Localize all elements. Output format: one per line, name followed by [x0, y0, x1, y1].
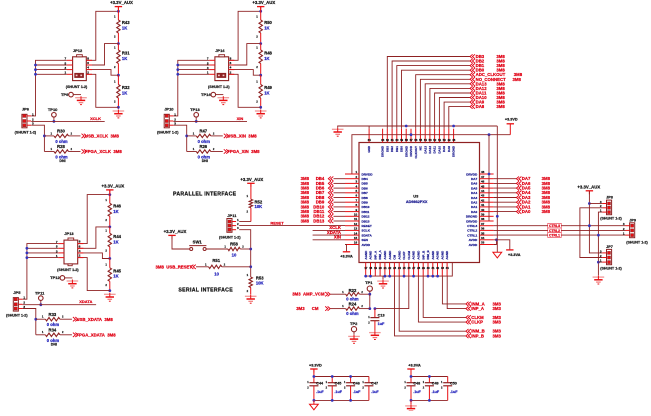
node cap bank joint top C49: [428, 375, 431, 378]
svg-text:R49: R49: [264, 85, 272, 90]
resistor R28 0 ohm DNI: [44, 144, 80, 163]
wire DRGND vertical to pin 39: [496, 126, 498, 252]
power +3.3V_AUX (right cluster): [577, 185, 600, 195]
node TP11 junction: [39, 303, 42, 306]
svg-text:17: 17: [364, 266, 367, 270]
wire U3 pin to INP_A: [447, 276, 466, 309]
svg-text:52: 52: [433, 138, 436, 142]
nodes AGND rail junctions: [364, 275, 439, 278]
wire power to SW1: [172, 236, 190, 249]
svg-text:XIN: XIN: [237, 116, 244, 121]
wire JP11 pin 3 down: [239, 230, 251, 277]
svg-text:.1uF: .1uF: [353, 390, 361, 394]
wire net XDATA: [23, 304, 97, 306]
node TP13 junction: [195, 120, 198, 123]
svg-text:DA5: DA5: [471, 186, 477, 190]
node branch junction: [34, 318, 37, 321]
svg-text:R58: R58: [230, 241, 238, 246]
wire U3 pin 16 to +3.3VA: [345, 245, 347, 252]
wire net CTRL3: [494, 225, 626, 227]
resistor R46 1K: [105, 191, 121, 227]
svg-text:CLKM: CLKM: [471, 315, 484, 320]
svg-text:JP9: JP9: [629, 218, 636, 222]
off-page connector USB_XCLK: [82, 134, 87, 138]
svg-text:AD9862PXX: AD9862PXX: [406, 200, 428, 204]
ground (TP12): [67, 280, 79, 288]
wire JP13 pin 2 to ground junction: [78, 258, 110, 291]
svg-text:SW1: SW1: [193, 240, 203, 245]
svg-text:15: 15: [354, 236, 358, 240]
wire power to JP8 pin 3: [589, 203, 602, 205]
svg-text:AGND: AGND: [431, 250, 435, 260]
svg-text:DB2: DB2: [390, 146, 394, 152]
svg-text:1K: 1K: [113, 274, 118, 279]
off-page connector INP_B: [466, 334, 471, 338]
svg-text:DRGND: DRGND: [381, 145, 385, 157]
node DRVDD rail dot (right): [488, 133, 491, 136]
wire JP8 pin 2 to JP7 pin 2: [580, 208, 603, 258]
power +3.3V_AUX (R52): [240, 177, 263, 187]
wire cap bank bottom rail: [411, 399, 448, 401]
ground (TP14): [218, 96, 230, 104]
node DRVDD pin 48: [488, 173, 491, 176]
svg-text:10K: 10K: [256, 280, 264, 285]
wire DRGND rail: [338, 126, 498, 128]
ground (cap bank +3.3VD): [310, 404, 319, 410]
svg-text:1K: 1K: [264, 56, 269, 61]
svg-text:+3.3VA: +3.3VA: [408, 364, 421, 368]
svg-text:34: 34: [481, 236, 485, 240]
svg-text:FPGA_XCLK 3M8: FPGA_XCLK 3M8: [85, 149, 122, 154]
svg-text:C49: C49: [432, 381, 439, 385]
node cap bank stub bottom: [410, 399, 413, 402]
svg-text:37: 37: [481, 222, 485, 226]
svg-text:40: 40: [481, 208, 485, 212]
test point TP14: [201, 92, 216, 97]
node junction C: [117, 106, 120, 109]
svg-text:DRVDD: DRVDD: [409, 145, 413, 156]
svg-text:R30: R30: [57, 129, 65, 134]
wire cap bank bottom rail: [314, 399, 369, 401]
node DRGND rail dot 1: [405, 125, 408, 128]
wire JP5 pin 3 branch: [23, 309, 36, 335]
power +3.3VD (cap bank): [309, 364, 322, 373]
node junction C: [259, 106, 262, 109]
wire JP14 pin 4 to junction B: [229, 70, 261, 76]
power +3.3V_AUX (SW1): [164, 229, 187, 239]
svg-text:44: 44: [481, 189, 485, 193]
ground (DRGND rail left): [332, 128, 344, 136]
wire JP10 pin 3 branch: [174, 125, 187, 151]
wire R52 to JP11 pin 1: [239, 221, 251, 223]
node power-JP8 junction: [588, 202, 591, 205]
capacitor C44 .1uF: [307, 377, 324, 401]
node R51 junction: [249, 265, 252, 268]
labels DB3-DA8 off-page: [470, 54, 523, 109]
svg-text:+3.3VD: +3.3VD: [309, 364, 322, 368]
wire U3 pin to CLKP: [418, 276, 466, 322]
svg-text:3M8: 3M8: [301, 218, 310, 223]
connector JP5: [13, 296, 25, 312]
wire U3 GND pin to rail: [368, 126, 370, 129]
power +3.3V_AUX (XIN block): [252, 0, 275, 10]
svg-text:1K: 1K: [122, 26, 127, 31]
svg-text:DA2: DA2: [471, 201, 477, 205]
resistor R44 1K: [105, 227, 121, 259]
svg-text:SDATA: SDATA: [362, 233, 373, 237]
ground (resistor chain): [104, 293, 116, 301]
label CTRL1 boxed: [548, 233, 561, 238]
svg-text:DA0: DA0: [522, 209, 531, 214]
node power junction: [117, 10, 120, 13]
svg-text:3M3: 3M3: [296, 306, 305, 311]
capacitor C45 .1uF: [326, 377, 343, 401]
svg-text:3M8 USB_RESET: 3M8 USB_RESET: [156, 264, 193, 269]
svg-text:XDATA: XDATA: [79, 299, 92, 304]
off-page connector FPGA_XIN: [224, 149, 229, 153]
resistor R34 0 ohm DNI: [36, 328, 72, 347]
off-page connector USB_XIN: [224, 134, 229, 138]
svg-text:R48: R48: [264, 51, 272, 56]
svg-text:CTRL3: CTRL3: [467, 224, 477, 228]
svg-text:1K: 1K: [113, 209, 118, 214]
test point TP2: [350, 321, 358, 332]
svg-text:DA13: DA13: [423, 146, 427, 154]
svg-text:DRVDD: DRVDD: [362, 172, 374, 176]
svg-text:SEN: SEN: [362, 238, 369, 242]
svg-text:(SHUNT 1-2): (SHUNT 1-2): [157, 130, 179, 134]
svg-text:CLKP: CLKP: [471, 320, 483, 325]
svg-text:20: 20: [379, 266, 382, 270]
svg-text:R43: R43: [122, 20, 130, 25]
svg-text:TP9: TP9: [61, 92, 69, 97]
capacitor C46 .1uF: [344, 377, 361, 401]
svg-text:50: 50: [443, 138, 446, 142]
svg-text:DA9: DA9: [442, 146, 446, 152]
label CTRL3 boxed: [548, 223, 561, 228]
svg-text:C48: C48: [413, 381, 420, 385]
svg-text:60: 60: [396, 138, 399, 142]
wire power to JP13 pin 8: [78, 195, 110, 244]
node DRGND pin 39: [496, 215, 499, 218]
svg-text:JP14: JP14: [215, 48, 225, 53]
ground (C13): [369, 331, 381, 339]
svg-text:DNI: DNI: [202, 159, 208, 163]
svg-text:R51: R51: [212, 258, 220, 263]
test point TP9: [61, 92, 73, 97]
svg-text:51: 51: [438, 138, 441, 142]
svg-text:3M8: 3M8: [542, 209, 551, 214]
svg-text:34: 34: [446, 266, 449, 270]
off-page connector FPGA_XCLK: [82, 149, 87, 153]
node DRVDD rail dot (top pin): [410, 133, 413, 136]
svg-text:24: 24: [398, 266, 401, 270]
svg-text:AGND: AGND: [383, 250, 387, 260]
svg-text:10: 10: [232, 252, 237, 257]
ground (cap bank +3.3VA): [405, 404, 417, 412]
svg-text:DRGND: DRGND: [404, 145, 408, 157]
svg-text:27: 27: [412, 266, 415, 270]
svg-text:TP13: TP13: [190, 107, 200, 112]
svg-text:USB_XIN 3M8: USB_XIN 3M8: [227, 134, 257, 139]
svg-text:22: 22: [388, 266, 391, 270]
node TP10 junction: [53, 120, 56, 123]
off-page connector USB_XDATA: [73, 317, 78, 321]
svg-text:INP_A: INP_A: [471, 306, 484, 311]
svg-text:AGND: AGND: [388, 250, 392, 260]
wire net XCLK: [31, 120, 105, 122]
svg-text:DA6: DA6: [471, 182, 477, 186]
power +3.3VA (right): [506, 249, 521, 256]
svg-text:TP2: TP2: [350, 321, 358, 326]
connector JP8: [600, 200, 612, 215]
resistor R24 0 ohm: [330, 302, 369, 316]
ground (TP2): [348, 335, 360, 343]
wire net CTRL2: [494, 229, 626, 231]
svg-text:R28: R28: [57, 144, 65, 149]
svg-text:JP5: JP5: [13, 290, 21, 295]
svg-text:CLKM: CLKM: [407, 250, 411, 259]
off-page connector FPGA_XDATA: [73, 333, 78, 337]
node power junction: [259, 10, 262, 13]
resistor R45 1K: [105, 259, 121, 293]
svg-text:+3.3V_AUX: +3.3V_AUX: [101, 184, 124, 189]
svg-text:54: 54: [424, 138, 427, 142]
svg-text:45: 45: [481, 184, 485, 188]
svg-text:+3.3V_AUX: +3.3V_AUX: [240, 177, 263, 182]
U3 left pins 1-16: [345, 170, 373, 247]
connector JP6: [22, 112, 34, 128]
wire cap bank top rail: [313, 370, 315, 377]
node AVDD join: [495, 238, 498, 241]
wire JP12 pin 4 to junction B: [87, 70, 119, 76]
svg-text:CLKP: CLKP: [402, 251, 406, 259]
svg-text:.1uF: .1uF: [334, 390, 342, 394]
wire JP7 pin 1: [598, 261, 602, 263]
svg-text:12: 12: [354, 222, 358, 226]
svg-text:JP7: JP7: [606, 245, 613, 249]
resistor R58 10: [206, 241, 251, 257]
svg-text:DB5: DB5: [362, 182, 368, 186]
ground (right cluster): [593, 276, 605, 284]
wire TP9 to ground: [73, 94, 81, 96]
wire bus JP12 left pins to JP6 pin 1: [31, 60, 67, 116]
svg-text:61: 61: [391, 138, 394, 142]
resistor R26 0 ohm DNI: [187, 144, 223, 163]
wire AGND rail: [366, 263, 453, 277]
node junction A: [259, 42, 262, 45]
svg-text:R32: R32: [122, 85, 130, 90]
svg-text:R44: R44: [113, 234, 121, 239]
svg-text:DB6: DB6: [362, 186, 368, 190]
svg-text:C44: C44: [316, 381, 324, 385]
node CM junction 2: [374, 307, 377, 310]
svg-text:AVDD: AVDD: [469, 243, 478, 247]
node CTRL3 junction: [588, 224, 591, 227]
svg-text:RESET: RESET: [270, 220, 284, 225]
svg-text:49: 49: [448, 138, 451, 142]
svg-text:DRVDD: DRVDD: [466, 219, 478, 223]
node AMP_VCM junction: [368, 293, 371, 296]
svg-text:18: 18: [369, 266, 372, 270]
svg-text:AGND: AGND: [364, 250, 368, 260]
node cap bank joint bottom C49: [428, 399, 431, 402]
svg-text:63: 63: [381, 138, 384, 142]
svg-text:SERIAL INTERFACE: SERIAL INTERFACE: [178, 287, 233, 293]
svg-text:0 ohm: 0 ohm: [198, 139, 211, 144]
node branch junction: [185, 135, 188, 138]
svg-text:+3.3VA: +3.3VA: [340, 254, 353, 258]
wire AGND rail ground stub: [382, 276, 384, 279]
resistor R33 0 ohm: [36, 312, 72, 327]
power +3.3VA (cap bank): [407, 364, 421, 373]
svg-text:+3.3V_AUX: +3.3V_AUX: [252, 0, 275, 5]
svg-text:R33: R33: [49, 312, 57, 317]
resistor R51 10: [196, 258, 251, 277]
off-page connector CLKP: [466, 320, 471, 324]
svg-text:57: 57: [410, 138, 413, 142]
svg-text:U3: U3: [413, 193, 419, 198]
svg-text:AGND: AGND: [412, 250, 416, 260]
off-page connector USB_RESET: [191, 265, 196, 269]
svg-text:DB12: DB12: [362, 215, 370, 219]
test point TP13: [190, 107, 200, 117]
svg-text:43: 43: [481, 194, 485, 198]
svg-text:CTRL2: CTRL2: [467, 229, 477, 233]
svg-text:DA1: DA1: [471, 205, 477, 209]
wire U3 pin 34 AVDD to +3.3VA: [494, 240, 510, 250]
wire junction A to JP14 pin 6: [229, 44, 261, 65]
wire DRVDD rail to +3.3VD: [509, 124, 511, 135]
connector JP14: [207, 55, 234, 81]
wire TP14 to ground: [216, 94, 224, 96]
svg-text:C45: C45: [335, 381, 342, 385]
node junction A: [108, 226, 111, 229]
svg-text:DA0: DA0: [471, 210, 477, 214]
svg-text:TP14: TP14: [201, 92, 211, 97]
svg-text:+3.3V_AUX: +3.3V_AUX: [577, 185, 600, 190]
svg-text:36: 36: [481, 227, 485, 231]
wires top fan DB3-DA8: [387, 57, 470, 129]
svg-text:3M3: 3M3: [493, 333, 502, 338]
svg-text:AGND: AGND: [445, 250, 449, 260]
resistor R22 0 ohm: [330, 288, 369, 301]
svg-text:C46: C46: [353, 381, 360, 385]
svg-text:10K: 10K: [255, 204, 263, 209]
svg-text:33: 33: [481, 241, 485, 245]
svg-text:JP11: JP11: [227, 213, 237, 218]
ground (resistor chain): [255, 110, 267, 118]
svg-text:.1uF: .1uF: [371, 390, 379, 394]
wire net CTRL1: [494, 234, 626, 236]
connector JP9: [623, 222, 635, 238]
svg-text:DA8: DA8: [447, 146, 451, 152]
label INP_A 3M3: [471, 306, 501, 311]
svg-text:26: 26: [408, 266, 411, 270]
connector JP13: [56, 238, 83, 266]
svg-text:3M3: 3M3: [493, 306, 502, 311]
svg-text:10: 10: [354, 213, 358, 217]
svg-text:DRVDD: DRVDD: [466, 172, 478, 176]
svg-text:3M3 AMP_VCM: 3M3 AMP_VCM: [292, 292, 325, 297]
capacitor C48 .1uF: [404, 377, 421, 401]
svg-text:DA3: DA3: [471, 196, 477, 200]
wire bus JP13 left pins to JP5 pin 1: [23, 244, 59, 300]
wire junction A to JP12 pin 6: [87, 44, 119, 65]
node SW junction: [249, 248, 252, 251]
svg-text:DRGND: DRGND: [452, 145, 456, 157]
svg-text:R26: R26: [199, 144, 207, 149]
off-page connector CLKM: [466, 315, 471, 319]
wire U3 pin to INM_B: [399, 276, 466, 331]
svg-text:3M3: 3M3: [493, 329, 502, 334]
svg-text:C50: C50: [450, 381, 457, 385]
svg-text:(SHUNT 1-2): (SHUNT 1-2): [6, 314, 28, 318]
svg-text:AGND: AGND: [397, 250, 401, 260]
wire cap bank ground stub: [313, 400, 315, 404]
svg-text:(SHUNT 1-2): (SHUNT 1-2): [600, 266, 622, 270]
svg-text:21: 21: [384, 266, 387, 270]
off-page connector INM_B: [466, 329, 471, 333]
svg-text:USB_XDATA 3M8: USB_XDATA 3M8: [76, 317, 113, 322]
node cap bank stub bottom: [313, 399, 316, 402]
wire cap bank top rail: [410, 370, 412, 377]
wire TP13 stem: [195, 117, 197, 121]
resistor R32 1K: [114, 75, 130, 109]
wire net XIN to U3 pin 15: [313, 239, 345, 241]
svg-text:+3.3V_AUX: +3.3V_AUX: [164, 229, 187, 234]
wire power to JP14 pin 8: [229, 11, 261, 60]
svg-text:AGND: AGND: [440, 250, 444, 260]
wires and labels DA7-DA0: [494, 176, 551, 214]
svg-text:INM_A: INM_A: [378, 249, 382, 259]
svg-text:JP6: JP6: [22, 107, 30, 112]
svg-text:0 ohm: 0 ohm: [55, 139, 68, 144]
capacitor C13 1uF: [368, 309, 385, 331]
wire JP12 pin 2 to ground junction: [87, 74, 119, 107]
svg-text:28: 28: [417, 266, 420, 270]
labels DB4-DB13 with off-page connectors: [301, 176, 345, 223]
resistor R49 1K: [256, 75, 272, 109]
test point TP12: [50, 275, 65, 280]
svg-text:TP10: TP10: [48, 107, 58, 112]
wire TP1 stem: [369, 291, 371, 294]
svg-text:DNI: DNI: [51, 343, 57, 347]
svg-text:INP_B: INP_B: [471, 333, 484, 338]
svg-text:DB4: DB4: [362, 177, 368, 181]
ground (resistor chain): [113, 110, 125, 118]
off-page connector INM_A: [466, 302, 471, 306]
wire net XDATA to U3 pin 14: [313, 234, 345, 236]
node CTRL1 junction: [597, 234, 600, 237]
svg-text:58: 58: [405, 138, 408, 142]
connector JP12: [65, 55, 92, 81]
svg-text:3M8: 3M8: [513, 77, 522, 82]
power +3.3V_AUX (XDATA block): [101, 184, 124, 194]
svg-text:RESET: RESET: [362, 224, 372, 228]
resistor R52 10K: [246, 184, 262, 222]
svg-text:AGND: AGND: [436, 250, 440, 260]
resistor R31 1K: [114, 44, 130, 76]
svg-text:30: 30: [427, 266, 430, 270]
label INP_B 3M3: [471, 333, 501, 338]
resistor R43 1K: [114, 7, 130, 43]
ground (R53): [245, 295, 257, 303]
node junction B: [117, 74, 120, 77]
svg-text:(SHUNT 1-2): (SHUNT 1-2): [626, 241, 648, 245]
svg-text:FPGA_XIN 3M8: FPGA_XIN 3M8: [227, 149, 260, 154]
svg-text:55: 55: [419, 138, 422, 142]
